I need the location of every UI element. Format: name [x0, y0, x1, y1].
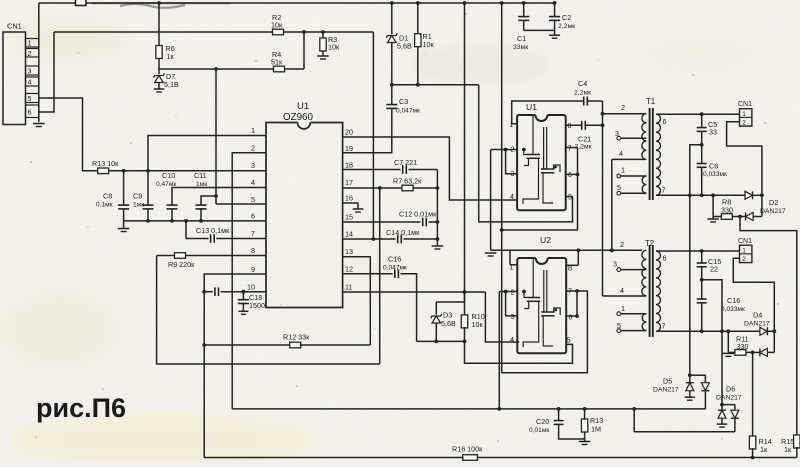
diode D2 DAN217 (dual): [740, 191, 786, 220]
series capacitor pins 9-10: [204, 287, 266, 296]
svg-text:U2: U2: [540, 235, 551, 245]
svg-text:4: 4: [510, 192, 514, 201]
capacitor C20 0,01mk: [529, 409, 585, 439]
svg-text:DAN217: DAN217: [760, 208, 786, 215]
T1 secondary winding (pins 6-7): [656, 114, 667, 195]
svg-text:4: 4: [619, 149, 623, 158]
resistor R14 1k: [749, 436, 771, 459]
resistor R4 51k: [271, 50, 285, 72]
svg-text:C10: C10: [162, 171, 175, 180]
wire D3/R10 bottom to driver U2 pin5: [417, 341, 573, 363]
capacitor C10 0,47mk: [156, 171, 178, 221]
wire U1 driver pin1 to top strap: [512, 101, 584, 124]
svg-text:1: 1: [251, 126, 255, 135]
svg-text:C4: C4: [578, 79, 587, 88]
svg-text:R7 63,2к: R7 63,2к: [393, 177, 422, 186]
transformer T2: [645, 239, 654, 337]
svg-text:R9 220к: R9 220к: [168, 260, 195, 269]
svg-text:0,047мк: 0,047мк: [383, 265, 407, 272]
svg-text:C6: C6: [709, 162, 718, 171]
svg-text:0,047мк: 0,047мк: [396, 108, 420, 115]
svg-text:R16 100к: R16 100к: [452, 445, 483, 454]
capacitor C8 0,1mk: [96, 171, 129, 221]
connector CN1 (left, 6-pin): [3, 22, 39, 125]
svg-text:2: 2: [621, 103, 625, 112]
capacitor C14 0,1mk on pin 14: [343, 228, 438, 243]
svg-text:13: 13: [345, 247, 353, 256]
diode D5 DAN217 (dual) with ground: [653, 373, 709, 409]
svg-text:6: 6: [663, 117, 667, 126]
svg-text:15: 15: [345, 213, 353, 222]
resistor R13 1M with ground: [579, 409, 603, 445]
wire D6 lower branch: [634, 409, 735, 432]
resistor R12 33k pins 10-13: [204, 333, 370, 348]
svg-text:C20: C20: [536, 417, 549, 426]
wire U2 driver pin2/pin3 gate net: [497, 290, 525, 411]
wire D1/R1 node row: [390, 83, 479, 87]
svg-text:C13 0,1мк: C13 0,1мк: [196, 226, 230, 235]
T2 primary winding lower (pins 1-5): [617, 304, 647, 333]
svg-text:C2: C2: [562, 13, 571, 22]
capacitor C2 2,2mk with ground: [524, 1, 575, 38]
capacitor C3 0,047mk to pin 19: [343, 85, 420, 153]
wire pin 11 row: [343, 290, 520, 342]
wire T2 secondary top to CN1: [656, 249, 740, 253]
U1 driver pin labels: [510, 120, 573, 202]
svg-text:1: 1: [621, 304, 625, 313]
wire pin 5 / R4 branch to C11: [201, 69, 266, 205]
zener diode D1 5,6B: [386, 1, 412, 85]
svg-text:U1: U1: [526, 102, 537, 112]
resistor R3 10k with ground: [317, 30, 340, 59]
svg-text:33мк: 33мк: [513, 44, 528, 51]
svg-text:C21: C21: [578, 135, 591, 144]
wire pin 1 to C9: [148, 136, 266, 206]
svg-text:5: 5: [617, 183, 621, 192]
svg-text:1к: 1к: [760, 445, 768, 454]
wire feedback rail (OZ960 pin 2 net): [232, 407, 705, 411]
svg-text:0,47мк: 0,47мк: [156, 181, 176, 188]
capacitor C21 2,2mk on U1 driver pin8: [566, 121, 603, 151]
U1 pin number labels left: [247, 126, 255, 292]
svg-text:1к: 1к: [167, 52, 175, 61]
wire CN1 pin 5 to R13: [39, 98, 97, 171]
wire pin 13 to R12: [343, 257, 371, 345]
svg-text:7: 7: [662, 186, 666, 195]
wire pin 3 / R13 row: [110, 169, 267, 173]
svg-text:2: 2: [742, 256, 746, 263]
ground stub pin 16: [343, 203, 364, 212]
svg-text:0,1мк: 0,1мк: [96, 202, 113, 209]
wire C7/R7/C12/C14 common with ground: [432, 170, 444, 250]
capacitor C4 2,2mk: [574, 79, 603, 106]
svg-text:7: 7: [251, 229, 255, 238]
svg-text:DAN217: DAN217: [653, 387, 679, 394]
svg-text:C12 0,01мк: C12 0,01мк: [399, 210, 437, 219]
connector CN1 (T1 output): [738, 101, 752, 126]
diode D6 DAN217 (dual) with ground: [716, 385, 742, 432]
T2 secondary winding (pins 6-7): [656, 251, 667, 331]
wire C5 lamp-sense rail down to D5: [688, 143, 704, 375]
svg-text:5: 5: [567, 336, 571, 345]
fuse F1 (unlabeled component on top rail, clipped at top edge): [76, 0, 87, 6]
diode D4 DAN217 (dual): [744, 311, 774, 357]
wire CN1 pin2 return (T2): [733, 258, 776, 352]
svg-text:2: 2: [28, 49, 32, 58]
svg-text:2,2мк: 2,2мк: [575, 144, 592, 151]
svg-text:9: 9: [251, 265, 255, 274]
svg-text:5: 5: [28, 94, 32, 103]
wire C15 sense rail to D6: [700, 278, 724, 405]
svg-text:2,2мк: 2,2мк: [558, 23, 575, 30]
svg-text:3: 3: [251, 161, 255, 170]
capacitor C5 33: [697, 114, 718, 145]
svg-text:5,6В: 5,6В: [441, 319, 456, 328]
svg-text:C16: C16: [388, 255, 401, 264]
svg-text:C7 221: C7 221: [394, 158, 417, 167]
wire CN1 pins 1-2 to top rail: [38, 3, 40, 122]
wire pin 6 ground rail: [124, 219, 266, 223]
svg-text:8: 8: [251, 246, 255, 255]
capacitor C15 22: [697, 251, 721, 280]
wire U2 driver pin7/pin6 bracket to VCC: [502, 289, 588, 373]
ground below CN1 pins 3-4: [33, 124, 45, 127]
wire T2 secondary bottom row: [656, 329, 760, 333]
capacitor C6 0,033mk: [697, 145, 727, 196]
svg-text:1мк: 1мк: [196, 181, 207, 188]
svg-text:51к: 51к: [271, 58, 283, 67]
wire R2 rail down to pin 14 row: [372, 32, 376, 241]
wire pin 17 rail down to R9 row: [379, 188, 381, 364]
zener diode D3 5,6B: [431, 302, 456, 343]
wire U2 top strap with ground: [485, 248, 642, 265]
svg-text:0,033мк: 0,033мк: [703, 171, 727, 178]
wire top supply rail: [39, 2, 555, 4]
svg-text:D4: D4: [753, 311, 762, 320]
wire U1 driver pin2/pin3 gate net with ground: [491, 148, 526, 251]
svg-text:T1: T1: [646, 97, 655, 106]
svg-text:2: 2: [742, 119, 746, 126]
svg-text:OZ960: OZ960: [283, 112, 314, 123]
U2 driver internal MOSFETs: [523, 259, 560, 347]
svg-text:17: 17: [345, 178, 353, 187]
svg-text:5,6B: 5,6B: [397, 42, 412, 51]
svg-text:330: 330: [721, 206, 733, 215]
svg-text:14: 14: [345, 230, 353, 239]
svg-text:C11: C11: [194, 171, 207, 180]
svg-text:1мк: 1мк: [133, 202, 144, 209]
wire R2 feed rail: [54, 31, 373, 33]
svg-text:1к: 1к: [784, 445, 792, 454]
capacitor C16 0,047mk on pin 12: [343, 255, 417, 342]
svg-text:0,01мк: 0,01мк: [529, 427, 549, 434]
svg-text:10к: 10к: [472, 320, 484, 329]
svg-text:4: 4: [620, 286, 624, 295]
resistor R7 63,2k on pin 17: [343, 177, 438, 191]
T1 primary winding lower (pins 1-5): [617, 166, 647, 196]
wire CN1 pin 6 to R2 rail: [39, 32, 54, 112]
svg-text:10к: 10к: [328, 43, 340, 52]
svg-text:6: 6: [28, 108, 32, 117]
svg-text:CN1: CN1: [738, 238, 752, 245]
wire R6/R4 row: [159, 30, 306, 71]
T1 primary winding upper (pins 2-3-4): [615, 103, 646, 159]
svg-text:U1: U1: [297, 101, 309, 112]
capacitor C11 1mk: [194, 171, 207, 221]
svg-text:18: 18: [345, 161, 353, 170]
svg-text:CN1: CN1: [738, 101, 752, 108]
wire C4/C21 rail to T1 pin2 and T2 pin4: [601, 101, 646, 296]
resistor R11 330 with ground: [723, 331, 755, 356]
svg-text:12: 12: [345, 265, 353, 274]
svg-text:C16: C16: [727, 296, 740, 305]
svg-text:19: 19: [345, 144, 353, 153]
wire D4 node to R14: [752, 352, 754, 437]
wire T1 secondary bottom row: [656, 193, 745, 197]
resistor R6 1k: [156, 1, 175, 69]
svg-text:10к: 10к: [271, 21, 283, 30]
wire U1 driver pin7/pin6 bracket: [502, 148, 580, 231]
svg-text:1500: 1500: [249, 301, 265, 310]
wire pin 20 to driver U1 pin4: [343, 137, 517, 200]
wire pin 4 to C10: [172, 188, 266, 206]
capacitor C16 0,033mk (T2): [697, 280, 745, 332]
resistor R13 10k: [92, 159, 119, 174]
resistor R8 330 with ground: [707, 195, 742, 222]
svg-text:D5: D5: [663, 377, 672, 386]
svg-text:1: 1: [742, 247, 746, 254]
svg-text:D2: D2: [769, 198, 778, 207]
figure caption: [36, 393, 126, 423]
svg-text:4: 4: [28, 78, 32, 87]
svg-text:6: 6: [569, 313, 573, 322]
svg-text:C9: C9: [133, 192, 142, 201]
svg-text:1M: 1M: [591, 425, 601, 434]
svg-text:10к: 10к: [423, 40, 435, 49]
IC U1 OZ960 body: [266, 101, 343, 308]
svg-text:DAN217: DAN217: [744, 321, 770, 328]
wire top-rail branch to D3/R10 node: [463, 1, 467, 302]
svg-text:C14 0,1мк: C14 0,1мк: [386, 228, 420, 237]
capacitor C13 0,1mk to pin 7: [186, 221, 266, 243]
svg-text:рис.П6: рис.П6: [36, 393, 126, 423]
svg-text:16: 16: [345, 194, 353, 203]
wire pin 2 down-left rail: [232, 153, 266, 409]
svg-text:22: 22: [710, 265, 718, 274]
resistor R2 10k: [271, 13, 284, 35]
wire D2 node to R15: [740, 217, 797, 437]
U2 driver pin labels: [510, 263, 573, 345]
svg-text:7: 7: [662, 322, 666, 331]
svg-text:5,1B: 5,1B: [164, 80, 179, 89]
svg-text:6: 6: [251, 212, 255, 221]
resistor R15 1k: [781, 435, 800, 458]
svg-text:1: 1: [621, 166, 625, 175]
svg-text:4: 4: [510, 335, 514, 344]
resistor R9 220k on pin 8: [157, 253, 380, 364]
capacitor C7 221 on pin 18: [343, 158, 438, 174]
svg-text:2: 2: [620, 240, 624, 249]
svg-text:C3: C3: [399, 97, 408, 106]
svg-text:33: 33: [709, 128, 717, 137]
svg-text:6: 6: [663, 254, 667, 263]
wire CN1 pin2 return: [727, 122, 764, 217]
connector CN1 (T2 output): [738, 238, 752, 263]
wire U1 driver pin5 to D1/R1 sense: [479, 85, 573, 222]
zener diode D7 5,1B: [154, 69, 179, 92]
transformer T1: [646, 97, 655, 200]
svg-text:DAN217: DAN217: [716, 395, 742, 402]
svg-text:10: 10: [247, 283, 255, 292]
U1 driver internal MOSFETs: [523, 116, 560, 204]
resistor R16 100k: [452, 445, 483, 461]
svg-text:R12 33к: R12 33к: [283, 333, 310, 342]
wire VCC rail down the middle: [500, 1, 504, 373]
wire pin 9 rail down to bottom: [202, 274, 266, 458]
svg-text:CN1: CN1: [7, 22, 22, 31]
ground at C8 rail: [118, 221, 130, 232]
svg-text:C8: C8: [103, 192, 112, 201]
resistor R1 10k: [415, 1, 435, 85]
capacitor C18 1500: [238, 292, 265, 315]
MOSFET pair U1 (driver block) body: [517, 102, 566, 210]
svg-text:R13 10к: R13 10к: [92, 159, 119, 168]
svg-text:0,033мк: 0,033мк: [721, 306, 745, 313]
wire T1 pin4 to T2 pin2: [610, 159, 646, 252]
svg-text:2,2мк: 2,2мк: [574, 90, 591, 97]
wire T1 secondary top to CN1: [656, 112, 740, 116]
svg-text:3: 3: [613, 260, 617, 269]
svg-text:3: 3: [28, 67, 32, 76]
capacitor C1 33mk: [513, 1, 529, 51]
wire T1 pin2: [603, 113, 647, 115]
svg-text:C1: C1: [517, 34, 526, 43]
svg-text:2: 2: [251, 144, 255, 153]
U1 pin number labels right: [345, 128, 353, 292]
svg-text:11: 11: [345, 283, 352, 292]
capacitor C9 1mk: [133, 192, 154, 221]
svg-text:330: 330: [737, 342, 749, 351]
svg-text:20: 20: [345, 128, 353, 137]
svg-text:1: 1: [742, 111, 746, 118]
svg-text:1: 1: [28, 39, 32, 48]
resistor R10 10k: [436, 292, 484, 343]
svg-text:D6: D6: [726, 385, 735, 394]
MOSFET pair U2 (driver block) body: [517, 235, 566, 353]
wire bottom return rail: [204, 457, 797, 459]
capacitor C12 0,01mk on pin 15: [343, 210, 438, 227]
svg-text:4: 4: [251, 178, 255, 187]
svg-text:5: 5: [251, 195, 255, 204]
T2 primary winding upper (pins 2-3-4): [613, 240, 646, 296]
